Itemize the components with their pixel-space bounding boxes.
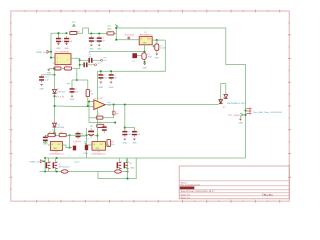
svg-text:TP?: TP? [97,63,100,65]
svg-text:2N7002,215: 2N7002,215 [59,167,71,169]
svg-text:10n: 10n [89,57,92,59]
svg-text:LM2931AZ-5.0: LM2931AZ-5.0 [92,153,107,156]
svg-text:Fra_Cons4proCLed: Fra_Cons4proCLed [181,184,201,187]
svg-text:1: 1 [67,60,68,62]
svg-text:R?: R? [116,113,118,115]
svg-text:R? 4.7k: R? 4.7k [56,96,64,98]
svg-text:GND: GND [132,143,137,145]
svg-text:GND: GND [130,167,135,169]
svg-text:GND: GND [109,87,114,89]
svg-text:OUT: OUT [58,144,61,146]
svg-text:Size B Date: 01/02/2020 18:2: Size B Date: 01/02/2020 18:27 [181,190,216,193]
svg-text:1N4148DO-35-7: 1N4148DO-35-7 [227,103,248,105]
svg-text:100n: 100n [94,40,98,42]
svg-text:1.2k: 1.2k [89,93,93,95]
svg-text:100n: 100n [127,134,131,136]
svg-text:LM2936MP-5.0: LM2936MP-5.0 [139,35,154,37]
svg-text:3: 3 [57,57,58,59]
svg-text:GND: GND [122,143,127,145]
svg-text:Sheet: 1/1: Sheet: 1/1 [181,196,191,199]
svg-text:BZX84: BZX84 [58,127,65,129]
svg-text:2.2uF: 2.2uF [160,48,167,50]
svg-text:GND: GND [98,87,103,89]
svg-text:LM2931AZ-5.0: LM2931AZ-5.0 [50,153,65,156]
svg-text:GND: GND [238,123,243,125]
svg-text:U?_LM?: U?_LM? [95,98,104,100]
svg-text:Cap_C: Cap_C [74,162,81,164]
svg-text:GND: GND [70,99,75,101]
svg-text:GND: GND [142,68,147,70]
svg-text:GND: GND [46,73,51,75]
svg-text:GND: GND [97,48,102,50]
svg-text:C?: C? [132,61,134,63]
svg-text:Scale: 1/1: Scale: 1/1 [181,194,191,196]
svg-text:OUT: OUT [147,39,151,41]
svg-text:GND: GND [89,48,94,50]
svg-text:PWR_Ctrl: PWR_Ctrl [36,51,47,54]
svg-text:TP?: TP? [90,126,93,128]
svg-text:TPL_V4(3V): TPL_V4(3V) [228,115,241,117]
svg-text:Out: Out [103,59,107,62]
svg-text:100n: 100n [80,136,84,138]
svg-text:C? 100n: C? 100n [73,141,81,143]
svg-text:GND: GND [43,144,48,146]
svg-text:GND: GND [64,48,69,50]
svg-text:1N4?: 1N4? [148,57,153,59]
svg-text:PWR_Ctrl: PWR_Ctrl [30,160,41,163]
svg-text:Rev: B.1: Rev: B.1 [264,194,274,196]
svg-text:Test_Pad: Test_Pad [125,33,135,36]
svg-text:U?_LM2904D: U?_LM2904D [55,51,70,53]
svg-text:GND: GND [56,48,61,50]
svg-text:4.7kOhm: 4.7kOhm [57,92,66,94]
svg-text:GND: GND [39,88,44,90]
svg-text:GND: GND [107,29,112,31]
svg-text:100n: 100n [103,77,107,79]
svg-text:GND: GND [83,153,88,155]
svg-text:Con_Ball_Stav_01022020: Con_Ball_Stav_01022020 [253,111,283,114]
svg-text:GND: GND [155,57,160,59]
svg-text:10k: 10k [111,144,114,146]
svg-text:OUT: OUT [100,144,103,146]
svg-text:2: 2 [57,62,58,64]
